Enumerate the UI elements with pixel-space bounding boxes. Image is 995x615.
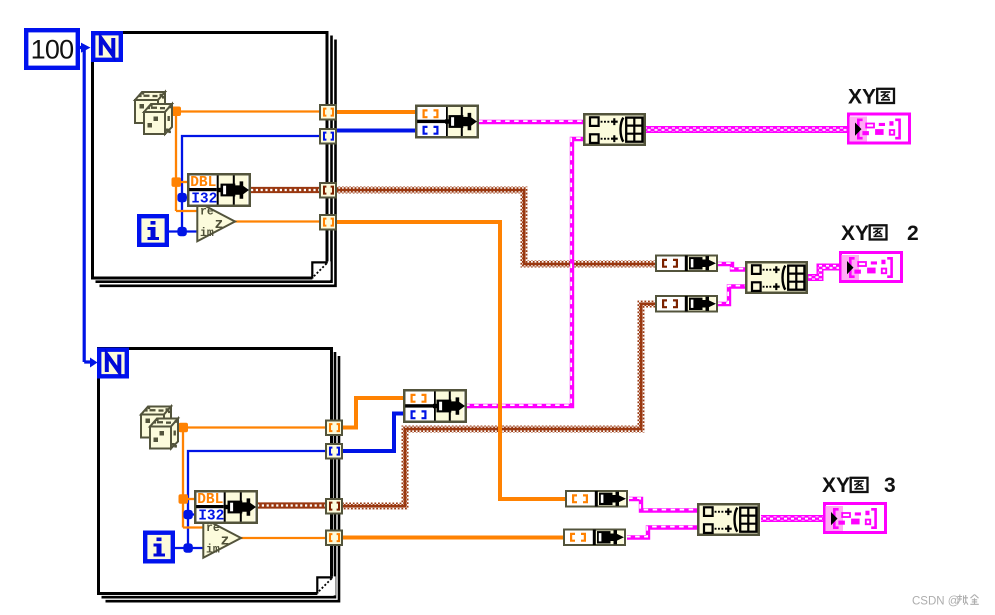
XY graph terminal 3 bbox=[825, 504, 886, 533]
wire: orange stub to DBL input loop2 bbox=[183, 498, 195, 500]
convert node U6 bbox=[656, 296, 717, 312]
wire: orange dbl array tunnel B1 to bundle U2 bbox=[342, 398, 405, 428]
junction: blue on i wire loop2 bbox=[183, 543, 192, 552]
tunnel T4 bbox=[320, 215, 336, 230]
wire: magenta cluster from convert U5 to build node U8 bbox=[718, 264, 746, 270]
build cluster array node U11 bbox=[698, 504, 759, 535]
build cluster array node U8 bbox=[746, 262, 807, 293]
triangle re/im->z loop1 bbox=[197, 202, 235, 241]
for-loop 1 folded corner bbox=[311, 261, 330, 280]
wire: brown cluster-array from tunnel B3 to convert node U6 bbox=[343, 304, 656, 506]
svg-text:3: 3 bbox=[884, 474, 896, 497]
DBL bundle node U4 bbox=[195, 491, 257, 524]
build cluster array node U7 bbox=[584, 114, 645, 145]
junction: blue on i wire loop1 bbox=[177, 227, 186, 236]
watermark CSDN bbox=[912, 595, 979, 608]
junction: orange at DBL input loop2 bbox=[179, 494, 189, 504]
wire: blue i32 array tunnel T2 to bundle U1 bbox=[337, 129, 416, 133]
label XY graph 1 bbox=[848, 86, 894, 109]
for-loop 2 folded corner bbox=[316, 576, 335, 595]
wire arrowhead into loop1 N bbox=[81, 43, 91, 53]
numeric constant 100 bbox=[26, 30, 78, 68]
i terminal loop2 bbox=[145, 533, 173, 562]
bundle node U2 bbox=[404, 390, 466, 422]
wire arrowhead into loop2 N bbox=[90, 358, 98, 368]
tunnel T1 bbox=[320, 105, 336, 120]
wire: orange stub to DBL input loop1 bbox=[176, 181, 188, 183]
wire: blue i branch to tunnel T2 loop1 bbox=[182, 136, 319, 232]
wire: brown dotted cluster from DBL node U3 to tunnel T3 bbox=[251, 187, 320, 193]
triangle re/im->z loop2 bbox=[203, 518, 241, 557]
tunnel B2 bbox=[326, 444, 342, 459]
bundle node U1 bbox=[416, 106, 478, 138]
tunnel T3 bbox=[320, 183, 336, 198]
junction: dice1 output bbox=[172, 107, 182, 117]
tunnel B1 bbox=[326, 421, 342, 436]
convert node U5 bbox=[656, 256, 717, 272]
for-loop 1 frame bbox=[93, 33, 336, 286]
wire: orange dice1 down to triangle re loop1 bbox=[176, 110, 197, 211]
for-loop 2 frame bbox=[99, 349, 340, 602]
wire: blue N count from constant 100 down to loop2 N bbox=[80, 46, 91, 362]
convert node U9 bbox=[566, 491, 627, 507]
wire: orange dice2 to tunnel B1 bbox=[185, 426, 326, 428]
junction: blue at I32 input loop2 bbox=[183, 510, 192, 519]
wire: blue stub to I32 input loop1 bbox=[182, 196, 189, 198]
wire: blue i branch to tunnel B2 loop2 bbox=[188, 451, 325, 549]
wire: orange triangle2 output to tunnel B4 bbox=[241, 537, 326, 539]
svg-text:100: 100 bbox=[31, 35, 74, 65]
DBL bundle node U3 bbox=[188, 174, 250, 207]
tunnel B4 bbox=[326, 531, 342, 546]
wire: orange dbl array tunnel T4 down to convert U9 bbox=[337, 222, 566, 499]
wire: blue stub to I32 input loop2 bbox=[188, 513, 196, 515]
wire: blue i32 array tunnel B2 to bundle U2 bbox=[342, 414, 404, 452]
i terminal loop1 bbox=[139, 216, 167, 245]
wire: orange dice1 to tunnel T1 bbox=[178, 110, 320, 112]
junction: dice2 output bbox=[179, 423, 189, 433]
svg-text:XY: XY bbox=[848, 86, 876, 109]
junction: blue at I32 input loop1 bbox=[177, 193, 186, 202]
wire: orange dice2 down to triangle re loop2 bbox=[183, 426, 204, 528]
svg-text:XY: XY bbox=[822, 474, 850, 497]
wire: blue from i terminal to triangle im loop1 bbox=[169, 230, 197, 232]
N terminal loop1 bbox=[93, 33, 121, 60]
wire: magenta cluster from bundle U1 to build node U7 bbox=[479, 120, 584, 124]
wire: orange triangle1 output to tunnel T4 bbox=[234, 220, 320, 222]
svg-text:CSDN @: CSDN @ bbox=[912, 596, 959, 608]
tunnel B3 bbox=[326, 499, 342, 514]
XY graph terminal 1 bbox=[849, 114, 910, 143]
N terminal loop2 bbox=[99, 350, 127, 377]
wire: magenta cluster from convert U6 to build node U8 bbox=[718, 287, 746, 305]
wire: magenta cluster-array from build U7 to XY graph 1 bbox=[646, 126, 848, 133]
label XY graph 2 bbox=[841, 222, 919, 245]
dice icon loop1 bbox=[135, 92, 172, 134]
wire: orange dbl array tunnel B4 to convert U10 bbox=[343, 536, 564, 540]
wire: orange dbl array tunnel T1 to bundle U1 bbox=[337, 110, 416, 114]
wire: brown dotted cluster from DBL node U4 to tunnel B3 bbox=[257, 502, 326, 508]
svg-text:XY: XY bbox=[841, 222, 869, 245]
wire: magenta cluster from convert U10 to build node U11 bbox=[627, 528, 698, 538]
wire: brown cluster-array from tunnel T3 to convert node U5 bbox=[337, 190, 656, 264]
wire: blue from i terminal to triangle im loop2 bbox=[175, 547, 204, 549]
XY graph terminal 2 bbox=[841, 253, 902, 282]
wire: magenta cluster from bundle U2 to build node U7 bbox=[466, 139, 584, 406]
label XY graph 3 bbox=[822, 474, 896, 497]
junction: orange at DBL input loop1 bbox=[172, 177, 182, 187]
svg-text:2: 2 bbox=[907, 222, 919, 245]
convert node U10 bbox=[564, 530, 625, 546]
wire: magenta cluster from convert U9 to build node U11 bbox=[629, 499, 698, 511]
wire: magenta cluster-array from build U11 to XY graph 3 bbox=[761, 515, 824, 522]
tunnel T2 bbox=[320, 129, 336, 144]
dice icon loop2 bbox=[141, 407, 178, 449]
wire: magenta cluster-array from build U8 to XY graph 2 bbox=[808, 267, 840, 278]
